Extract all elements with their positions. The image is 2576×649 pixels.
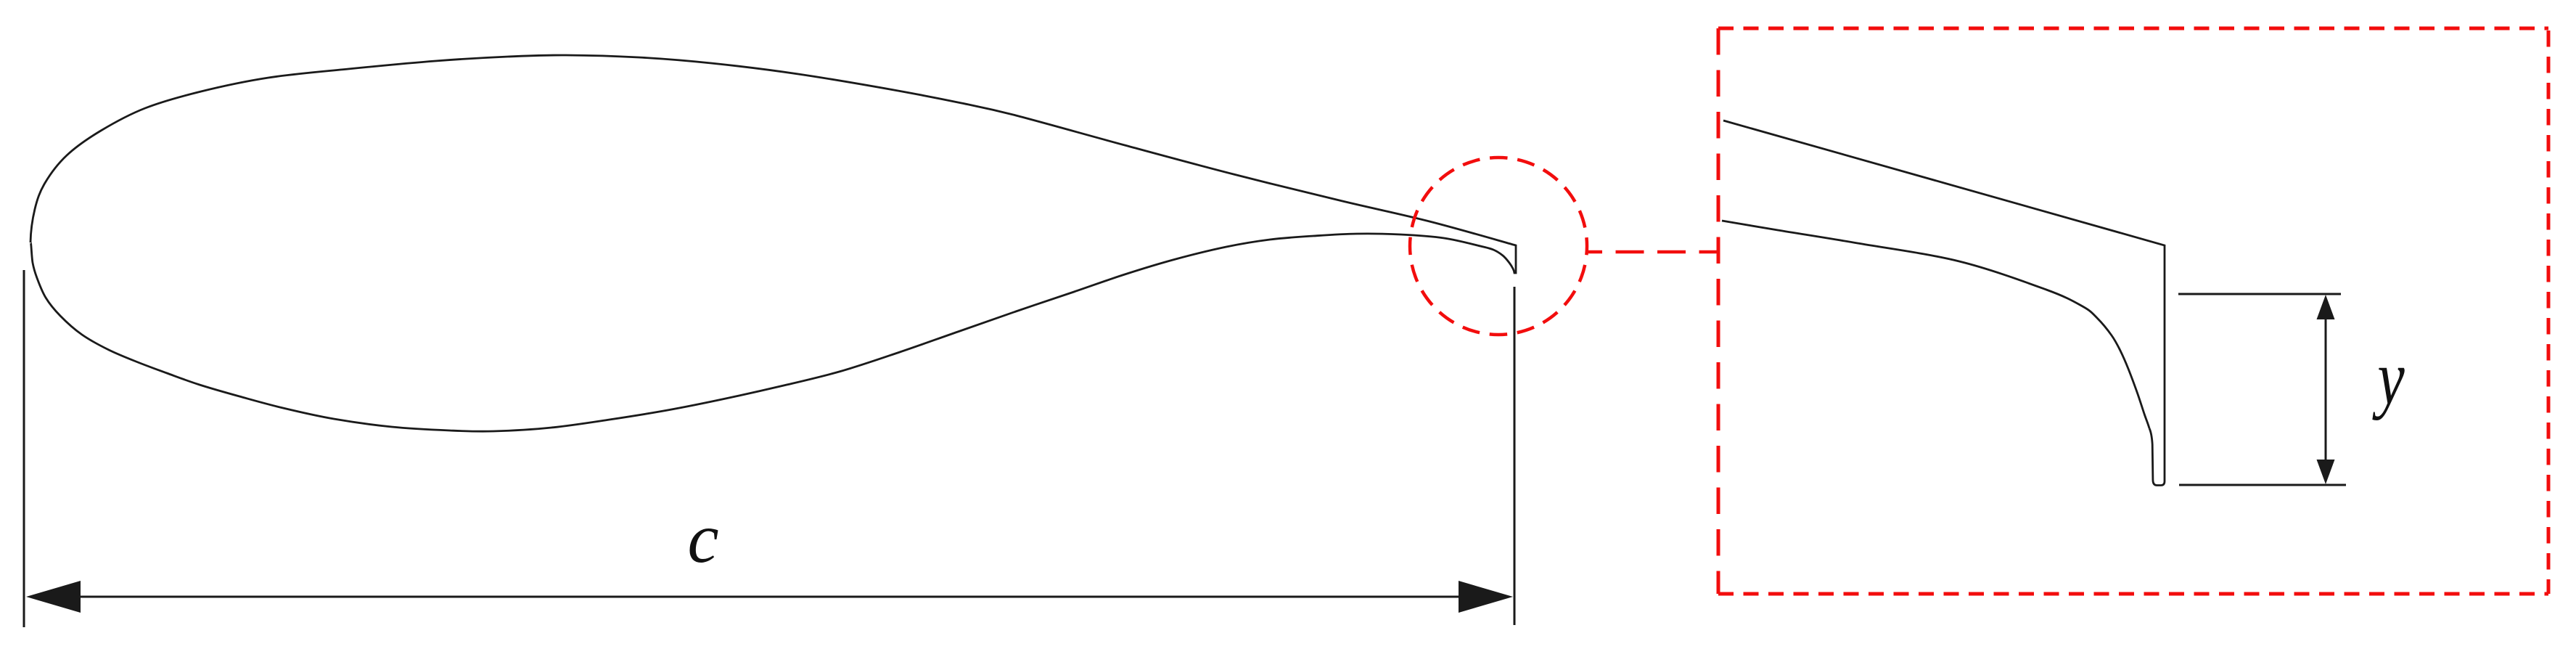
svg-text:c: c	[687, 499, 718, 577]
